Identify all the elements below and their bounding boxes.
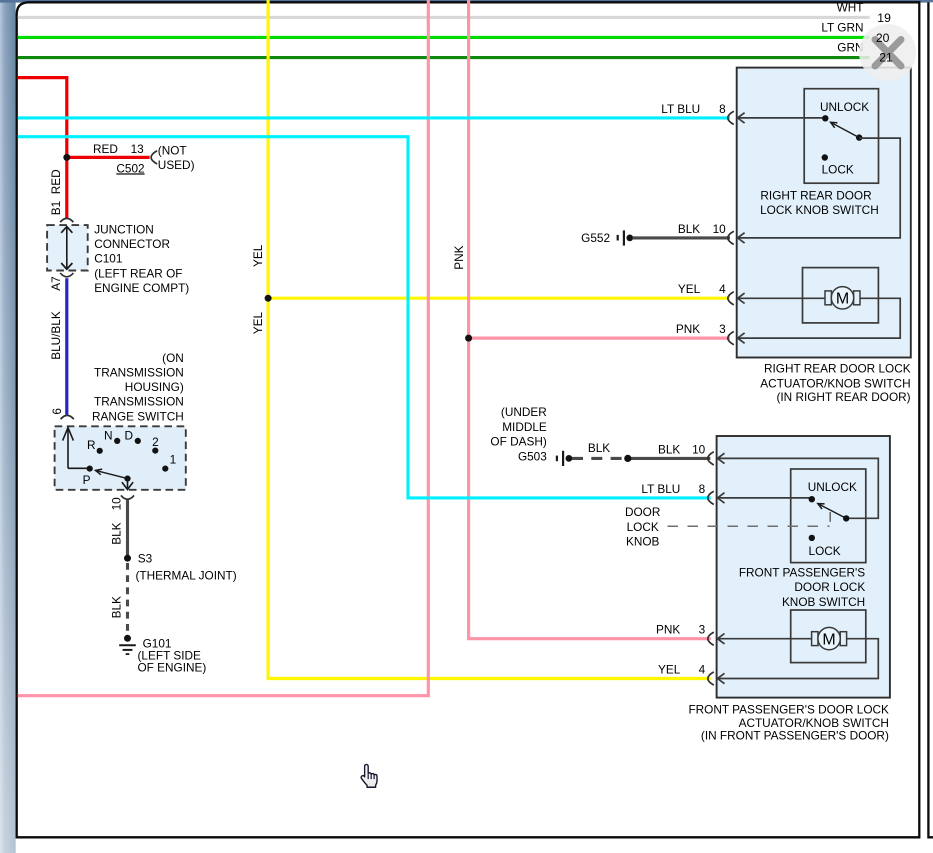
svg-text:(IN RIGHT REAR DOOR): (IN RIGHT REAR DOOR) [776,390,910,404]
internal line BLK to pivot [718,458,879,518]
svg-text:B1 RED: B1 RED [49,169,63,215]
svg-text:(IN FRONT PASSENGER'S DOOR): (IN FRONT PASSENGER'S DOOR) [701,728,889,742]
connector cup below C101 [60,273,73,277]
contact R [97,448,103,454]
range switch output line with down arrow [127,479,129,488]
connector cup PNK front [708,632,714,645]
svg-text:10: 10 [692,442,706,456]
svg-text:PNK: PNK [656,623,680,637]
svg-text:M: M [822,631,835,648]
svg-text:8: 8 [719,102,726,116]
svg-text:M: M [836,291,849,308]
svg-text:RANGE SWITCH: RANGE SWITCH [92,409,184,423]
svg-text:3: 3 [719,322,726,336]
svg-text:C101: C101 [94,252,122,266]
right rear door lock actuator/knob switch box [737,68,911,358]
svg-text:LOCK: LOCK [627,520,659,534]
front unlock contact [809,496,815,502]
svg-text:10: 10 [713,222,727,236]
junction node on YEL wire [265,295,272,302]
contact P [87,466,93,472]
svg-text:CONNECTOR: CONNECTOR [94,237,170,251]
svg-text:KNOB: KNOB [626,534,660,548]
wire BLU/BLK vertical [65,278,68,414]
svg-text:FRONT PASSENGER'S DOOR LOCK: FRONT PASSENGER'S DOOR LOCK [688,703,889,717]
svg-text:BLK: BLK [588,441,610,455]
svg-text:OF DASH): OF DASH) [490,435,546,449]
svg-text:RED: RED [93,142,118,156]
svg-text:(ON: (ON [162,351,184,365]
connector cup LT BLU front [708,491,714,504]
connector cup BLK rear [728,231,734,244]
front knob switch inner box [791,469,866,563]
svg-text:PNK: PNK [676,322,700,336]
svg-text:20: 20 [876,31,890,45]
wire BLK solid to S3 [126,500,129,556]
wire YEL branch to right rear door [268,297,730,300]
internal line YEL to motor [738,297,826,299]
svg-text:4: 4 [719,282,726,296]
svg-text:PNK: PNK [452,245,466,269]
svg-text:P: P [83,473,91,487]
wire BLK solid to front door [628,457,711,460]
range switch line to P contact [68,467,88,469]
svg-text:RIGHT REAR DOOR: RIGHT REAR DOOR [760,188,871,202]
front switch arm [818,504,846,519]
svg-text:YEL: YEL [251,244,265,267]
junction node on PNK wire [465,335,472,342]
svg-text:LT GRN: LT GRN [821,20,863,34]
junction connector C101 dashed box [47,225,88,270]
adjacent page edge (right) [930,2,933,837]
svg-text:OF ENGINE): OF ENGINE) [138,660,207,674]
svg-text:A7: A7 [49,276,63,290]
rear motor box [803,268,879,323]
connector cup YEL front [708,672,714,685]
window top edge strip [0,0,933,3]
svg-text:1: 1 [170,452,177,466]
close button [859,24,916,81]
svg-text:N: N [104,428,113,442]
wire LT GRN horizontal [18,36,870,39]
front door lock motor M [812,632,818,646]
svg-text:BLK: BLK [110,522,124,544]
svg-text:FRONT PASSENGER'S: FRONT PASSENGER'S [739,566,865,580]
svg-text:WHT: WHT [837,0,864,14]
svg-text:BLK: BLK [110,596,124,618]
wire PNK branch to right rear door [469,337,730,340]
rear unlock contact [822,115,828,121]
ground G503 [556,456,558,462]
svg-text:YEL: YEL [678,282,701,296]
svg-text:3: 3 [699,623,706,637]
front switch pivot [843,515,849,521]
connector C502 (not used) [151,151,157,164]
front motor box [791,610,866,663]
internal line LT BLU to unlock contact [738,117,824,119]
svg-text:DOOR: DOOR [625,505,660,519]
wire BLK dashed from G503 [572,457,625,460]
ground G552 [617,235,619,241]
connector cup LT BLU rear [728,111,734,124]
C101 internal double arrow [66,228,68,269]
transmission range switch dashed box [55,426,186,490]
svg-text:LOCK: LOCK [822,163,854,177]
svg-text:LOCK KNOB SWITCH: LOCK KNOB SWITCH [760,203,879,217]
rear door lock motor M [825,291,831,305]
svg-text:HOUSING): HOUSING) [125,380,184,394]
wire WHT horizontal [18,16,870,19]
ground G101 [124,635,131,642]
contact 2 [152,448,158,454]
wire BLK dashed to G101 [126,563,129,632]
svg-text:G503: G503 [518,449,547,463]
svg-text:2: 2 [152,435,159,449]
connector cup BLK front [708,452,714,465]
svg-text:LOCK: LOCK [809,544,841,558]
svg-text:8: 8 [699,482,706,496]
wire LT BLU top horizontal [18,116,730,119]
svg-text:LT BLU: LT BLU [641,482,680,496]
svg-text:R: R [87,438,96,452]
svg-text:ENGINE COMPT): ENGINE COMPT) [94,281,189,295]
connector cup PNK rear [728,332,734,345]
rear switch pivot [856,134,862,140]
svg-text:4: 4 [699,663,706,677]
svg-text:YEL: YEL [658,663,681,677]
svg-text:13: 13 [131,142,145,156]
svg-text:YEL: YEL [251,311,265,334]
svg-text:10: 10 [110,497,124,511]
wire RED main path [18,78,67,219]
rear lock contact [822,154,828,160]
wire LT BLU second with corners to front door [18,137,711,498]
svg-text:19: 19 [877,11,891,25]
internal line PNK to motor [718,638,813,640]
junction node on RED wire [63,154,70,161]
door lock knob dashed link [668,525,830,527]
wire PNK left vertical with corner to page edge [18,0,429,696]
splice S3 [124,555,131,562]
svg-text:RIGHT REAR DOOR LOCK: RIGHT REAR DOOR LOCK [764,361,911,375]
svg-text:D: D [124,428,133,442]
svg-text:UNLOCK: UNLOCK [820,100,869,114]
range switch arm to P [96,470,128,478]
connector cup YEL rear [728,292,734,305]
connector cup above C101 [60,218,73,222]
svg-text:DOOR LOCK: DOOR LOCK [794,580,865,594]
contact 1 [162,466,168,472]
svg-text:(LEFT REAR OF: (LEFT REAR OF [94,266,182,280]
svg-text:C502: C502 [116,161,144,175]
wire PNK right vertical to front door [469,0,711,639]
svg-text:6: 6 [50,408,64,415]
internal line LT BLU to unlock contact [718,497,812,499]
splice node G503 wire [624,455,631,462]
front lock contact [809,535,815,541]
svg-text:USED): USED) [158,158,195,172]
contact D [135,438,141,444]
svg-text:(UNDER: (UNDER [501,405,547,419]
svg-text:BLK: BLK [678,222,700,236]
svg-text:S3: S3 [138,551,153,565]
wire GRN horizontal [18,56,870,59]
svg-text:TRANSMISSION: TRANSMISSION [94,395,184,409]
rear switch arm [831,122,860,137]
wire RED branch to C502 [67,156,150,159]
svg-text:MIDDLE: MIDDLE [502,420,547,434]
wire BLK from G552 [633,236,731,239]
internal line motor to PNK row [738,298,901,338]
svg-text:G552: G552 [581,231,610,245]
svg-text:JUNCTION: JUNCTION [94,223,154,237]
front passenger door lock actuator/knob switch box [717,436,890,698]
wire YEL vertical with corner to front door [268,0,711,679]
rear knob switch inner box [804,89,878,184]
contact N [114,438,120,444]
svg-text:BLK: BLK [658,442,680,456]
svg-text:ACTUATOR/KNOB SWITCH: ACTUATOR/KNOB SWITCH [760,377,910,391]
svg-text:LT BLU: LT BLU [661,102,700,116]
svg-text:(THERMAL JOINT): (THERMAL JOINT) [136,569,237,583]
internal line motor to YEL row [718,639,879,679]
svg-text:UNLOCK: UNLOCK [808,480,857,494]
svg-text:(NOT: (NOT [158,143,187,157]
svg-text:21: 21 [879,51,893,65]
range switch input line with up arrow [67,429,69,468]
svg-text:TRANSMISSION: TRANSMISSION [94,366,184,380]
connector cup above range switch [61,415,74,419]
connector cup below range switch [121,495,134,499]
range switch pivot [124,476,130,482]
internal line pivot to BLK row [738,138,901,238]
mouse cursor hand pointer [361,764,377,787]
svg-text:BLU/BLK: BLU/BLK [49,311,63,360]
svg-text:KNOB SWITCH: KNOB SWITCH [782,595,865,609]
